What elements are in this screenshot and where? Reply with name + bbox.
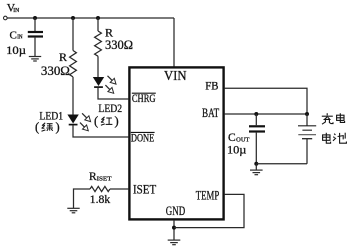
node junction GND/TEMP [172, 226, 176, 230]
LED1 (green) [67, 113, 90, 131]
svg-text:TEMP: TEMP [196, 187, 219, 202]
pin DONE with overline [131, 132, 155, 144]
svg-text:10µ: 10µ [227, 144, 247, 156]
wire FB to battery top [225, 88, 307, 114]
wire R2 branch top [97, 18, 99, 31]
svg-text:(: ( [94, 114, 98, 128]
pin CHRG with overline [132, 93, 156, 105]
svg-text:OUT: OUT [236, 136, 249, 143]
svg-text:330Ω: 330Ω [41, 64, 70, 78]
svg-text:VIN: VIN [164, 68, 187, 83]
svg-text:ISET: ISET [133, 183, 156, 197]
resistor RISET zigzag [90, 186, 110, 191]
svg-text:GND: GND [166, 203, 185, 218]
label battery cell (dian chi) [323, 133, 347, 144]
svg-text:ISET: ISET [97, 175, 112, 182]
wire battery bottom to COUT [256, 163, 307, 165]
LED2 (red) [93, 76, 116, 94]
svg-text:LED1: LED1 [39, 111, 63, 123]
svg-text:): ) [115, 114, 119, 128]
svg-text:CHRG: CHRG [132, 93, 156, 105]
label LED2 red [94, 114, 119, 128]
capacitor COUT [249, 114, 265, 164]
wire top rail [7, 17, 174, 19]
svg-text:DONE: DONE [131, 133, 154, 145]
wire GND pin down [173, 221, 175, 240]
ground CIN [29, 57, 41, 62]
svg-text:(: ( [35, 120, 39, 134]
wire R1 branch top [72, 18, 74, 51]
node VIN terminal [4, 16, 8, 20]
svg-text:): ) [56, 120, 60, 134]
svg-text:FB: FB [205, 81, 218, 93]
svg-text:C: C [228, 132, 236, 144]
label battery charging (chong dian) [322, 113, 345, 124]
svg-text:BAT: BAT [202, 106, 220, 120]
battery BT1 [298, 114, 316, 164]
ground RISET [67, 208, 79, 213]
op IC U1 box [129, 67, 223, 219]
svg-text:LED2: LED2 [98, 103, 122, 115]
node VIN label [7, 3, 20, 15]
ground COUT [250, 164, 263, 175]
node junction battery [305, 112, 309, 116]
label LED1 green [35, 120, 60, 134]
svg-text:1.8k: 1.8k [90, 194, 111, 206]
resistor R2 330ohm zigzag [95, 31, 102, 56]
wire VIN drop to IC [173, 18, 175, 67]
svg-text:330Ω: 330Ω [105, 38, 133, 52]
node junction CIN [33, 16, 37, 20]
svg-text:10µ: 10µ [6, 45, 26, 57]
wire LED2 to CHRG [98, 88, 128, 99]
wire BAT rail [225, 113, 307, 115]
wire RISET to ISET pin [110, 188, 128, 190]
svg-text:C: C [10, 29, 17, 41]
node junction R1 branch [71, 16, 75, 20]
label CIN [10, 29, 24, 41]
capacitor CIN [28, 18, 43, 56]
label COUT [228, 132, 250, 144]
node junction R2 branch [96, 16, 100, 20]
wire R1 to LED1 [72, 77, 74, 115]
node junction COUT [254, 112, 258, 116]
wire R2 to LED2 [97, 56, 99, 77]
node junction COUT bottom [254, 162, 258, 166]
svg-text:IN: IN [17, 35, 23, 41]
wire TEMP return [174, 194, 244, 227]
svg-text:IN: IN [13, 8, 20, 14]
ground GND pin [168, 240, 181, 245]
wire LED1 to DONE [73, 125, 128, 137]
svg-text:R: R [59, 50, 67, 64]
resistor R1 330ohm zigzag [70, 51, 77, 77]
wire RISET left + ground drop [74, 189, 91, 208]
resistor RISET label [89, 171, 112, 183]
